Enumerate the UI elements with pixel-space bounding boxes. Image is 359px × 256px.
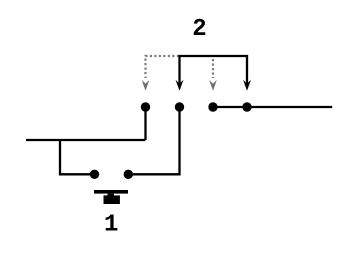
- node: pushbutton contact right: [124, 170, 133, 179]
- node: pushbutton contact left: [90, 170, 99, 179]
- pushbutton S1 bridge bar: [94, 190, 128, 194]
- black arrowhead (new position, pole a): [176, 80, 184, 91]
- wire: closed contact from terminal 3 through terminal 4 to the right: [213, 106, 332, 108]
- wire: solid black linkage bar with drops (new position): [180, 56, 248, 84]
- node: contact terminal 2 of switch 2: [175, 102, 184, 111]
- wire: from terminal 1 down to left rail: [144, 107, 146, 140]
- pushbutton S1 actuator block: [104, 195, 120, 204]
- svg-text:1: 1: [104, 212, 118, 239]
- wire: grey dotted linkage from old pole position up and over: [146, 56, 180, 78]
- wire: branch down from left rail: [60, 140, 95, 174]
- pushbutton S1 actuator stem: [108, 194, 114, 197]
- wire: pushbutton right contact up to terminal 2: [128, 107, 179, 174]
- grey arrowhead (old position, pole b): [209, 80, 217, 91]
- wire: grey dotted drop (old position, pole b): [212, 59, 214, 78]
- node: contact terminal 1 of switch 2: [141, 102, 150, 111]
- black arrowhead (new position, pole b): [243, 80, 251, 91]
- svg-text:2: 2: [192, 16, 206, 43]
- node: contact terminal 3 of switch 2: [208, 102, 217, 111]
- grey arrowhead (old position, pole a): [142, 80, 150, 91]
- wire: left rail: [26, 139, 146, 141]
- node: contact terminal 4 of switch 2: [242, 102, 251, 111]
